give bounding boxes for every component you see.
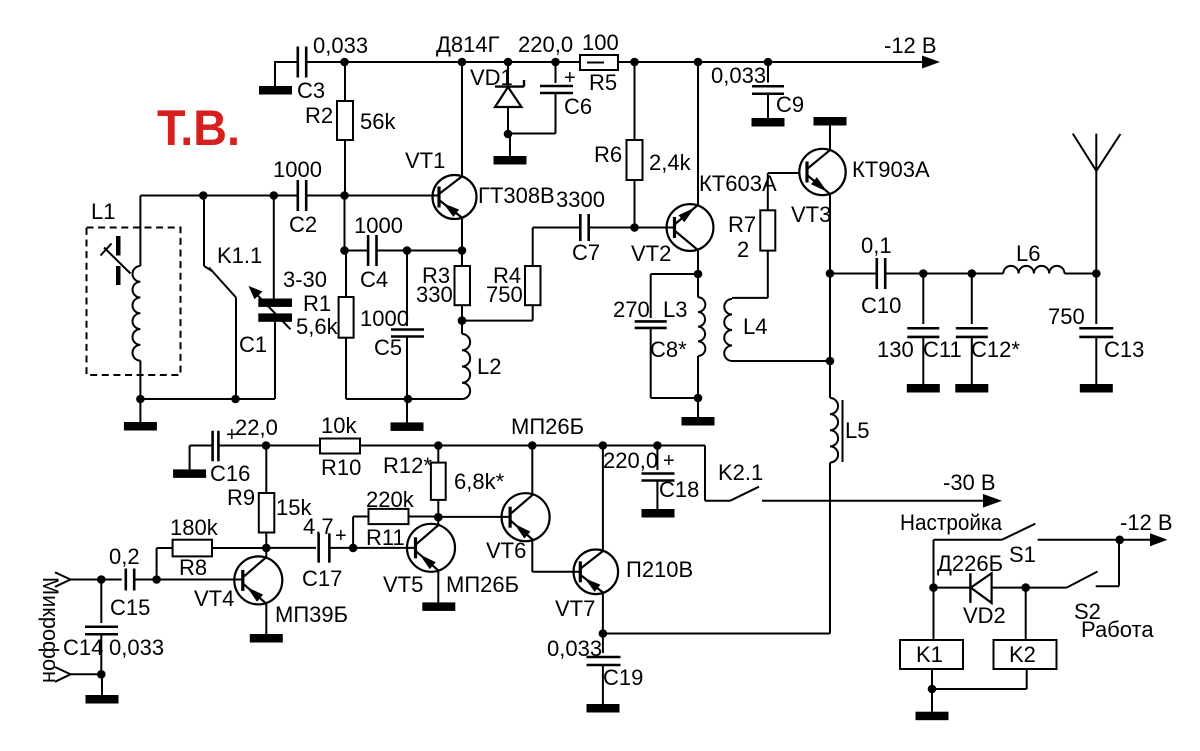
wire VT6 collector xyxy=(531,446,533,495)
resistor R1 xyxy=(296,251,354,400)
wire VT2 collector down xyxy=(697,250,699,274)
junction (VT1 collector at rail) xyxy=(458,58,467,67)
junction (L4 bottom / L5 line) xyxy=(826,357,835,366)
svg-text:220k: 220k xyxy=(366,487,415,512)
svg-text:750: 750 xyxy=(1048,304,1085,329)
svg-text:0,2: 0,2 xyxy=(109,544,140,569)
svg-text:L6: L6 xyxy=(1016,241,1040,266)
svg-text:C13: C13 xyxy=(1104,337,1144,362)
wire VT5 collector xyxy=(437,517,439,525)
capacitor C3 xyxy=(297,33,368,103)
svg-text:C14: C14 xyxy=(63,635,103,660)
svg-text:КТ603А: КТ603А xyxy=(699,171,777,196)
svg-text:П210В: П210В xyxy=(626,557,693,582)
svg-text:0,1: 0,1 xyxy=(861,233,892,258)
resistor R6 xyxy=(594,62,692,228)
label Микрофон xyxy=(38,577,63,683)
inductor L3 xyxy=(663,274,705,398)
capacitor C4 xyxy=(345,213,408,292)
switch K1.1 xyxy=(204,196,262,400)
ground (C3) xyxy=(259,62,292,95)
label МП26Б (VT6 type) xyxy=(511,414,584,439)
svg-text:МП39Б: МП39Б xyxy=(275,602,348,627)
junction (R11 tap) xyxy=(349,544,358,553)
inductor L4 xyxy=(724,251,830,361)
svg-text:+: + xyxy=(564,67,576,89)
wire VT4 collector xyxy=(265,548,267,558)
svg-text:C3: C3 xyxy=(297,78,325,103)
svg-text:ГТ308В: ГТ308В xyxy=(478,183,555,208)
inductor L1 (antenna coil, dashed screen box) xyxy=(87,196,181,400)
svg-text:C1: C1 xyxy=(239,332,267,357)
svg-text:C8*: C8* xyxy=(650,337,687,362)
inductor L2 xyxy=(462,321,501,399)
svg-text:VT6: VT6 xyxy=(486,538,526,563)
microphone input (top terminal) xyxy=(55,572,101,587)
wire VT3 emitter xyxy=(829,194,831,274)
wire VT6 emitter to VT7 base xyxy=(532,540,580,572)
svg-text:Микрофон: Микрофон xyxy=(38,577,63,683)
junction (VT7 emitter / C19) xyxy=(599,629,608,638)
resistor R10 xyxy=(320,413,361,480)
junction (VT6 collector at rail) xyxy=(528,441,537,450)
svg-text:K2: K2 xyxy=(1009,642,1036,667)
capacitor C8* xyxy=(613,274,698,398)
svg-text:K1.1: K1.1 xyxy=(217,243,262,268)
transistor VT6 (МП26Б) xyxy=(486,493,550,563)
svg-text:C16: C16 xyxy=(210,461,250,486)
svg-text:K2.1: K2.1 xyxy=(718,460,763,485)
ground (VT5 emitter) xyxy=(422,602,455,611)
wire main rail y=195.5 (L1/K1.1/C1/C2 node) xyxy=(140,195,439,197)
junction (C18 at rail) xyxy=(653,441,662,450)
transistor VT4 (МП39Б) xyxy=(194,556,348,627)
svg-text:S1: S1 xyxy=(1009,542,1036,567)
resistor R7 xyxy=(728,173,775,262)
svg-text:0,033: 0,033 xyxy=(109,635,164,660)
wire VT1 emitter xyxy=(461,218,463,251)
capacitor C10 xyxy=(830,233,923,318)
junction (C7/R6/VT2 base) xyxy=(630,223,639,232)
inductor L5 xyxy=(830,274,869,634)
svg-text:VD1: VD1 xyxy=(470,65,513,90)
svg-text:VT7: VT7 xyxy=(555,596,595,621)
junction (L1 bottom) xyxy=(136,395,145,404)
junction (VT2 emitter at rail) xyxy=(694,58,703,67)
wire C12 node to L6 xyxy=(972,273,1004,275)
microphone input (bottom terminal) xyxy=(55,667,101,682)
svg-text:3-30: 3-30 xyxy=(283,267,327,292)
wire R3 node to R4 bottom xyxy=(462,305,533,320)
capacitor C11 xyxy=(877,274,962,385)
junction (R6 at rail) xyxy=(630,58,639,67)
svg-text:VT2: VT2 xyxy=(631,241,671,266)
ground (C12) xyxy=(955,384,988,393)
junction (C5 ground node) xyxy=(404,395,413,404)
resistor R3 xyxy=(416,251,470,321)
svg-text:R10: R10 xyxy=(321,455,361,480)
svg-text:C6: C6 xyxy=(564,94,592,119)
svg-text:750: 750 xyxy=(486,282,523,307)
capacitor C14 xyxy=(63,580,164,675)
capacitor C12* xyxy=(956,274,1021,385)
inductor L6 xyxy=(1003,241,1064,274)
svg-text:C7: C7 xyxy=(572,240,600,265)
svg-text:1000: 1000 xyxy=(354,213,403,238)
junction (R2/C2/C4 node) xyxy=(340,191,349,200)
svg-text:МП26Б: МП26Б xyxy=(511,414,584,439)
svg-text:2,4k: 2,4k xyxy=(649,150,692,175)
junction (tank bottom) xyxy=(694,394,703,403)
junction (R12 bottom / VT5 collector / VT6 base) xyxy=(434,513,443,522)
svg-text:-12 В: -12 В xyxy=(884,33,937,58)
zener diode VD1 xyxy=(470,62,524,134)
svg-text:R11: R11 xyxy=(366,525,405,550)
junction (R12 top) xyxy=(434,441,443,450)
svg-text:VT3: VT3 xyxy=(791,202,831,227)
wire VT2 emitter to rail xyxy=(697,62,699,205)
capacitor C15 xyxy=(101,544,156,620)
svg-text:6,8k*: 6,8k* xyxy=(454,469,505,494)
junction (C16/R9 node) xyxy=(262,441,271,450)
svg-text:C19: C19 xyxy=(603,665,643,690)
wire C11 node to C12 node xyxy=(923,273,972,275)
svg-text:VD2: VD2 xyxy=(963,603,1006,628)
junction (VD1 at rail) xyxy=(504,58,513,67)
svg-text:220,0: 220,0 xyxy=(603,448,658,473)
resistor R11 xyxy=(353,487,438,550)
switch K2.1 (relay contact) xyxy=(705,460,830,501)
ground (C5/L2 bus) xyxy=(391,399,424,431)
svg-text:R7: R7 xyxy=(728,212,756,237)
junction (S1 right / S2 top) xyxy=(1115,536,1124,545)
junction (C6 at rail) xyxy=(551,58,560,67)
ground (relays) xyxy=(916,689,949,720)
svg-text:L3: L3 xyxy=(663,297,687,322)
junction (mic bottom terminal node) xyxy=(97,670,106,679)
junction (C11 node) xyxy=(919,269,928,278)
svg-text:K1: K1 xyxy=(916,642,943,667)
junction (K1.1 top) xyxy=(199,191,208,200)
resistor R4 xyxy=(486,228,581,308)
svg-text:0,033: 0,033 xyxy=(547,636,602,661)
svg-text:180k: 180k xyxy=(170,515,219,540)
ground (C18) xyxy=(642,509,675,518)
svg-text:+: + xyxy=(663,450,675,472)
svg-text:R6: R6 xyxy=(594,142,622,167)
wire L1 bottom bus xyxy=(140,398,275,400)
antenna xyxy=(1073,134,1121,274)
svg-text:Т.В.: Т.В. xyxy=(157,100,240,156)
capacitor C13 xyxy=(1048,274,1144,385)
svg-text:1000: 1000 xyxy=(273,157,322,182)
wire modulator supply rail xyxy=(218,446,705,501)
svg-text:220,0: 220,0 xyxy=(518,32,573,57)
switch S1 (Настройка) xyxy=(900,510,1120,588)
junction (R3/L2/R4 node) xyxy=(458,316,467,325)
resistor R12* xyxy=(383,446,505,518)
power arrow -12 V (top) xyxy=(884,33,940,69)
junction (C3/R2 node) xyxy=(340,58,349,67)
svg-text:4,7: 4,7 xyxy=(303,514,334,539)
transistor VT2 (КТ603А) xyxy=(631,171,777,266)
svg-text:L2: L2 xyxy=(477,354,501,379)
power arrow -12 V (right) xyxy=(1120,510,1173,546)
svg-text:56k: 56k xyxy=(360,109,396,134)
wire VT7 emitter to L5 bottom xyxy=(603,633,830,635)
svg-text:2: 2 xyxy=(737,237,749,262)
wire VT7 collector xyxy=(602,446,604,551)
resistor R2 xyxy=(305,62,396,196)
wire VT1 collector xyxy=(461,62,463,176)
wire VT4 emitter xyxy=(265,603,267,634)
svg-text:0,033: 0,033 xyxy=(313,33,368,58)
svg-text:МП26Б: МП26Б xyxy=(446,572,519,597)
svg-text:Работа: Работа xyxy=(1081,617,1154,642)
svg-text:R8: R8 xyxy=(179,555,207,580)
variable capacitor C1 xyxy=(239,196,327,400)
wire R7 top to VT3 base xyxy=(768,172,800,174)
transistor VT7 (П210В) xyxy=(555,550,693,622)
svg-text:5,6k: 5,6k xyxy=(296,314,339,339)
svg-text:1000: 1000 xyxy=(360,306,409,331)
wire VT5 emitter xyxy=(437,571,439,603)
svg-text:Д226Б: Д226Б xyxy=(937,551,1003,576)
junction (VD2 cathode / K1 node) xyxy=(929,583,938,592)
svg-text:C17: C17 xyxy=(302,566,342,591)
ground (VT3 collector) xyxy=(814,117,847,150)
relay coil K1 xyxy=(900,588,963,689)
power arrow -30 V xyxy=(943,470,1002,508)
junction (C1 top) xyxy=(270,191,279,200)
wire bottom ground bus (R1/C5/L2) xyxy=(346,398,462,400)
wire C17 to VT5 base xyxy=(353,547,414,549)
svg-text:C12*: C12* xyxy=(971,337,1020,362)
wire VT7 emitter xyxy=(602,593,604,634)
ground (mic/C14) xyxy=(86,674,119,704)
ground (C9) xyxy=(752,118,785,127)
svg-text:L5: L5 xyxy=(845,418,869,443)
junction (VD1/C6 bottom) xyxy=(504,130,513,139)
junction (C14 tap) xyxy=(97,575,106,584)
svg-text:+: + xyxy=(335,525,347,547)
ground (C11) xyxy=(907,384,940,393)
svg-text:VT1: VT1 xyxy=(405,148,445,173)
junction (C9 at rail) xyxy=(764,58,773,67)
capacitor C6 (electrolytic) xyxy=(508,32,592,134)
junction (VT1 emitter / R3 node) xyxy=(458,246,467,255)
svg-text:Настройка: Настройка xyxy=(900,510,1003,535)
svg-text:-30 В: -30 В xyxy=(943,470,996,495)
svg-text:270: 270 xyxy=(613,297,650,322)
svg-text:C2: C2 xyxy=(289,212,317,237)
wire C4 node to VT1 emitter node xyxy=(407,250,462,252)
svg-text:L4: L4 xyxy=(743,314,767,339)
svg-text:C4: C4 xyxy=(360,267,388,292)
junction (K1.1 bottom) xyxy=(231,395,240,404)
ground (C19) xyxy=(587,704,620,713)
capacitor C9 xyxy=(711,62,804,118)
junction (R9/R8/C17/VT4 collector) xyxy=(262,544,271,553)
wire K1/K2 ground bus xyxy=(932,688,1027,690)
capacitor C19 xyxy=(547,634,643,705)
svg-text:КТ903А: КТ903А xyxy=(852,157,930,182)
label Д814Г xyxy=(436,32,500,57)
transistor VT5 (МП26Б) xyxy=(383,524,519,597)
svg-text:10k: 10k xyxy=(321,413,357,438)
ground (VT4 emitter) xyxy=(250,634,283,643)
svg-text:L1: L1 xyxy=(91,199,115,224)
junction (C5 top node) xyxy=(403,246,412,255)
resistor R8 xyxy=(157,515,267,580)
svg-text:C11: C11 xyxy=(923,337,962,362)
capacitor C5 xyxy=(360,251,424,400)
svg-text:C15: C15 xyxy=(110,595,150,620)
resistor R5 xyxy=(580,30,619,95)
junction (VT3 emitter / C10) xyxy=(826,269,835,278)
svg-text:R5: R5 xyxy=(589,70,617,95)
svg-text:3300: 3300 xyxy=(556,187,605,212)
svg-text:R9: R9 xyxy=(227,485,255,510)
svg-text:C10: C10 xyxy=(861,293,901,318)
ground (L1 bus) xyxy=(124,399,157,431)
capacitor C2 xyxy=(273,157,322,237)
wire VT6 base xyxy=(438,516,509,518)
svg-text:R1: R1 xyxy=(303,291,331,316)
junction (VT7 collector at rail) xyxy=(599,441,608,450)
junction (antenna node) xyxy=(1092,269,1101,278)
ground (C13) xyxy=(1080,384,1113,393)
junction (R8 tap at VT4 base) xyxy=(152,575,161,584)
svg-text:0,033: 0,033 xyxy=(711,63,766,88)
svg-text:C18: C18 xyxy=(659,477,699,502)
svg-text:100: 100 xyxy=(582,30,619,55)
svg-text:R2: R2 xyxy=(305,103,333,128)
svg-text:22,0: 22,0 xyxy=(235,415,278,440)
wire top -12V rail xyxy=(274,61,925,63)
capacitor C16 (electrolytic) xyxy=(173,415,278,486)
svg-text:Д814Г: Д814Г xyxy=(436,32,500,57)
diode VD2 (Д226Б) xyxy=(934,551,1026,628)
relay coil K2 xyxy=(994,588,1057,689)
svg-text:VT5: VT5 xyxy=(383,572,423,597)
svg-text:130: 130 xyxy=(877,337,914,362)
junction (VD2 anode / K2 node) xyxy=(1021,583,1030,592)
junction (VT2 collector / tank) xyxy=(694,270,703,279)
resistor R9 xyxy=(227,446,312,548)
wire VT2 base xyxy=(635,227,675,229)
label Т.В. (red title) xyxy=(157,100,240,156)
wire -30V feed xyxy=(830,500,984,502)
switch S2 (Работа) xyxy=(1026,540,1155,642)
svg-text:VT4: VT4 xyxy=(194,586,234,611)
wire R2 node down to C4 node xyxy=(344,196,346,251)
ground (VD1) xyxy=(494,134,527,165)
junction (C4 left node) xyxy=(340,246,349,255)
junction (K1/K2 ground) xyxy=(928,685,937,694)
svg-text:-12 В: -12 В xyxy=(1120,510,1173,535)
svg-text:R12*: R12* xyxy=(383,453,432,478)
capacitor C7 xyxy=(556,187,635,265)
junction (C12 node) xyxy=(968,269,977,278)
transistor VT3 (КТ903А) xyxy=(791,149,930,227)
svg-text:C5: C5 xyxy=(374,335,402,360)
svg-text:330: 330 xyxy=(416,282,453,307)
svg-text:C9: C9 xyxy=(776,92,804,117)
wire L6 to antenna node xyxy=(1065,273,1097,275)
wire VT4 base xyxy=(157,579,244,581)
capacitor C17 (electrolytic) xyxy=(266,514,353,591)
transistor VT1 (ГТ308В) xyxy=(405,148,555,219)
capacitor C18 (electrolytic) xyxy=(603,446,699,510)
ground (L3/C8) xyxy=(682,398,715,426)
